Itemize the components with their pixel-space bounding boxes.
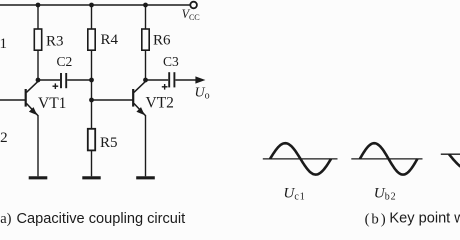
wire C2 right plate to R4 column bbox=[67, 79, 91, 81]
svg-text:C2: C2 bbox=[57, 54, 73, 69]
wire VT1 base lead from R2 (offscreen) bbox=[0, 99, 26, 101]
label C3 plus sign bbox=[162, 84, 168, 90]
svg-text:Ub2: Ub2 bbox=[374, 185, 397, 203]
resistor R3 bbox=[34, 29, 41, 50]
wire VT1 emitter down bbox=[37, 115, 39, 176]
svg-text:VCC: VCC bbox=[182, 7, 201, 22]
svg-text:R3: R3 bbox=[46, 34, 64, 50]
wire node to C3 left plate bbox=[146, 79, 169, 81]
svg-text:Key point waveform: Key point waveform bbox=[389, 211, 460, 227]
node R4-VT2 base junction bbox=[89, 98, 94, 103]
wire R6 to C3 node bbox=[145, 50, 147, 80]
capacitor C3 bbox=[169, 72, 174, 87]
ground below VT2 emitter bbox=[136, 176, 155, 179]
svg-text:Capacitive coupling circuit: Capacitive coupling circuit bbox=[17, 211, 186, 227]
node VCC terminal circle bbox=[190, 2, 197, 9]
waveform Uc1 sine bbox=[270, 143, 331, 174]
wire R4 down to C2 node and base node bbox=[91, 50, 93, 129]
node VT1 collector / C2 junction bbox=[36, 78, 41, 83]
svg-text:Uo: Uo bbox=[195, 86, 210, 102]
wire rail to R3 bbox=[37, 5, 39, 29]
svg-text:Uc1: Uc1 bbox=[283, 185, 305, 203]
svg-text:R6: R6 bbox=[153, 33, 171, 49]
svg-text:(a): (a) bbox=[0, 211, 12, 227]
resistor R4 bbox=[88, 29, 95, 50]
svg-text:R5: R5 bbox=[100, 135, 118, 151]
wire node to C2 left plate bbox=[38, 79, 60, 81]
svg-text:C3: C3 bbox=[163, 54, 179, 69]
wire VT2 base from R4 column bbox=[92, 99, 134, 101]
waveform Uc1 axis bbox=[263, 158, 338, 160]
resistor R5 bbox=[88, 129, 95, 151]
wire R5 to ground bbox=[91, 150, 93, 176]
wire R3 to collector node bbox=[37, 50, 39, 80]
ground below VT1 emitter bbox=[29, 176, 48, 179]
capacitor C2 bbox=[61, 73, 66, 88]
transistor VT1 bbox=[0, 81, 38, 115]
node junction dot rail-R6 bbox=[143, 3, 148, 8]
wire rail to R4 bbox=[91, 5, 93, 29]
svg-text:R4: R4 bbox=[101, 32, 119, 48]
svg-text:R2: R2 bbox=[0, 130, 8, 146]
transistor VT2 bbox=[133, 81, 146, 115]
ground below R5 bbox=[82, 176, 100, 179]
svg-text:(b): (b) bbox=[365, 212, 388, 228]
svg-text:R1: R1 bbox=[0, 36, 7, 52]
wire VCC top rail bbox=[0, 4, 190, 6]
waveform Uc2 axis (cut at right edge) bbox=[441, 153, 460, 155]
node VT2 collector / C3 junction bbox=[143, 78, 148, 83]
resistor R6 bbox=[142, 29, 149, 50]
waveform Ub2 sine bbox=[360, 143, 418, 174]
wire C3 to output arrow bbox=[175, 79, 196, 81]
wire VT2 emitter down bbox=[145, 115, 147, 176]
node junction dot rail-R4 bbox=[89, 3, 94, 8]
node C2-R4 junction bbox=[89, 78, 94, 83]
node output arrowhead bbox=[195, 76, 205, 83]
label C2 plus sign bbox=[53, 83, 59, 89]
svg-text:VT2: VT2 bbox=[146, 94, 174, 111]
svg-text:VT1: VT1 bbox=[38, 95, 66, 112]
wire rail to R6 bbox=[145, 5, 147, 29]
waveform Uc2 inverted sine (cut at right edge) bbox=[449, 154, 460, 167]
node junction dot rail-R3 bbox=[36, 3, 41, 8]
waveform Ub2 axis bbox=[351, 158, 422, 160]
